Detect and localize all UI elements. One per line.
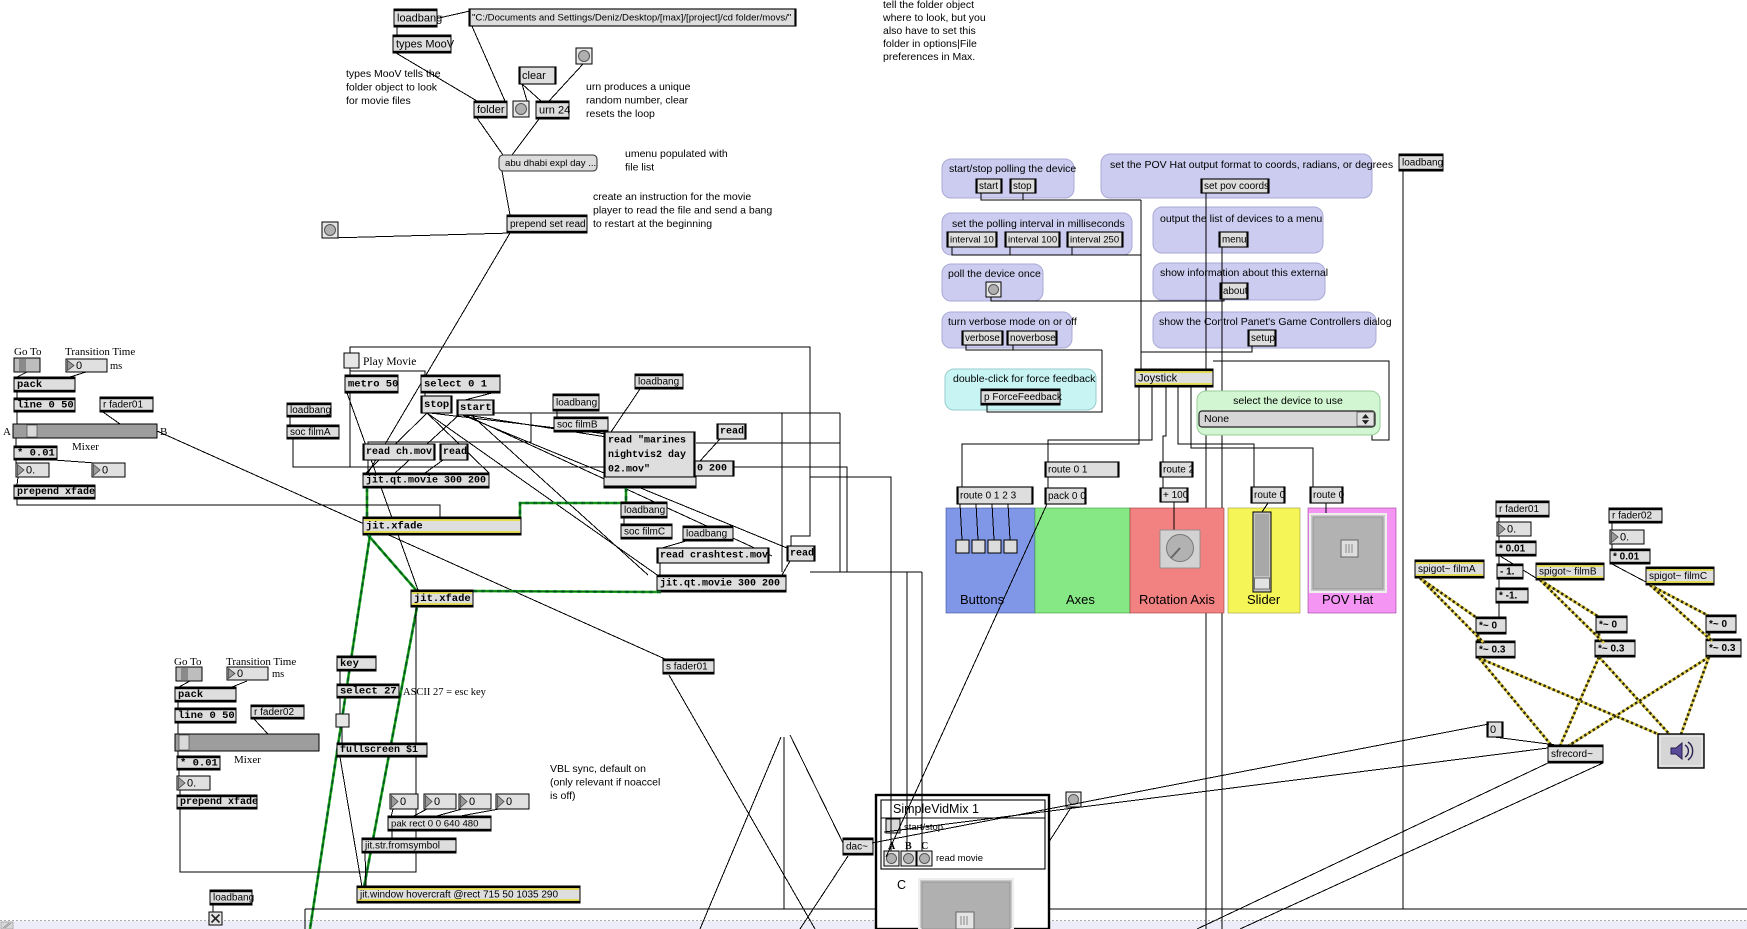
object loadbang (filmB) (553, 394, 599, 411)
wire stop-&gt;marines message (430, 413, 607, 434)
wire line-&gt;hslider 1 (16, 412, 18, 424)
wire loadbang-&gt;read crashtest (662, 541, 686, 548)
svg-text:poll the device once: poll the device once (948, 268, 1041, 280)
object types MooV (393, 35, 455, 53)
wire *0.01-&gt;*~0 c (1612, 564, 1710, 616)
wire stop-&gt;movieA (366, 413, 427, 473)
object soc filmA (287, 425, 339, 439)
svg-text:*~ 0.3: *~ 0.3 (1709, 643, 1736, 654)
svg-text:line 0 50: line 0 50 (178, 710, 235, 722)
wire route 0-&gt;pictslider (1325, 503, 1327, 514)
message interval 10 (947, 232, 997, 247)
toggle button 2 (972, 540, 985, 553)
number box fader02 (1610, 530, 1644, 544)
message route 2 (1160, 462, 1195, 477)
svg-text:soc filmA: soc filmA (290, 427, 331, 438)
svg-text:pack 0 0: pack 0 0 (1048, 491, 1086, 502)
svg-text:read "marines: read "marines (608, 435, 686, 447)
svg-text:Joystick: Joystick (1138, 373, 1178, 385)
svg-text:pack: pack (178, 689, 203, 701)
signal *~0.3b-&gt;sfrecord (1560, 657, 1599, 746)
svg-text:jit.xfade: jit.xfade (414, 593, 471, 605)
signal spigotA 2 (1420, 578, 1484, 643)
wire loadbang-&gt;soc filmB (556, 411, 558, 417)
svg-text:show information about this ex: show information about this external (1160, 267, 1328, 279)
wire bus drop 782 (781, 413, 783, 572)
svg-text:select 27: select 27 (340, 686, 397, 698)
svg-text:random number, clear: random number, clear (586, 95, 689, 107)
message verbose (962, 331, 1003, 345)
svg-text:jit.qt.movie 300 200: jit.qt.movie 300 200 (660, 578, 780, 590)
svg-text:Transition Time: Transition Time (226, 656, 296, 668)
wire fullscreen-&gt;jit.window (340, 757, 362, 887)
svg-text:ms: ms (110, 361, 122, 372)
wire clear-&gt;button2 area (522, 84, 527, 101)
comment select device (1233, 395, 1343, 407)
svg-text:ms: ms (272, 669, 284, 680)
comment create an instruction (593, 191, 772, 230)
object loadbang (filmC) (621, 502, 667, 518)
svg-text:Slider: Slider (1247, 592, 1281, 607)
svg-text:folder object to look: folder object to look (346, 82, 438, 94)
object loadbang (right) (1399, 154, 1443, 171)
object * 0.01 (2) (177, 756, 220, 770)
wire stop-&gt;movieA right (427, 413, 489, 473)
svg-text:ASCII 27 = esc key: ASCII 27 = esc key (403, 687, 487, 698)
toggle button 1 (956, 540, 969, 553)
wire loadbang-&gt;path message (430, 11, 470, 20)
svg-text:start/stop polling the device: start/stop polling the device (949, 163, 1076, 175)
jitter cable xfade2-&gt;jit.window (364, 607, 417, 887)
svg-text:read crashtest.mov: read crashtest.mov (660, 550, 768, 562)
wire read ch.mov-&gt;movieA (367, 460, 369, 473)
comment poll once (948, 268, 1041, 280)
svg-text:read movie: read movie (936, 853, 983, 864)
svg-text:also have to set this: also have to set this (883, 25, 976, 37)
wire route 0-&gt;slider (1262, 503, 1268, 512)
wire stop-&gt;movieC (427, 413, 660, 577)
wire key-&gt;select 27 (339, 671, 341, 684)
label Buttons (960, 592, 1005, 607)
svg-text:loadbang: loadbang (638, 377, 679, 388)
panel set POV hat format (1101, 154, 1372, 198)
wire joystick out2-&gt;route 0 1 (1048, 387, 1152, 462)
message 0 (1487, 722, 1503, 737)
svg-text:start: start (979, 181, 998, 192)
wire forcefeedback bus (987, 350, 1102, 412)
comment set POV hat (1110, 159, 1393, 171)
wire loadbang-&gt;soc filmC (623, 518, 625, 524)
svg-text:* -1.: * -1. (1499, 591, 1518, 602)
comment force feedback (953, 373, 1096, 385)
wire vidmix-&gt;0 message (872, 724, 1489, 843)
svg-text:Play Movie: Play Movie (363, 356, 416, 368)
wire metro down (349, 393, 351, 467)
svg-text:loadbang: loadbang (397, 13, 442, 25)
wire line-&gt;hslider 2 (177, 723, 179, 734)
object * 0.01 (b) (1610, 549, 1650, 564)
svg-text:r fader01: r fader01 (1499, 504, 1539, 515)
wire bus-&gt;read ch.mov inlet (368, 413, 531, 444)
object *~ 0.3 (c) (1706, 639, 1741, 657)
message fullscreen $1 (337, 743, 427, 757)
svg-text:A: A (3, 426, 11, 438)
comment output list devices (1160, 213, 1322, 225)
svg-text:*~ 0: *~ 0 (1599, 620, 1618, 631)
svg-text:route 0: route 0 (1313, 490, 1345, 501)
svg-text:p ForceFeedback: p ForceFeedback (984, 392, 1063, 403)
label Rotation Axis (1139, 592, 1215, 607)
wire start-&gt;movieA2 (395, 414, 460, 473)
svg-text:loadbang: loadbang (624, 505, 665, 516)
svg-text:route 0 1 2 3: route 0 1 2 3 (960, 491, 1017, 502)
object select 0 1 (421, 375, 500, 393)
number box mix 2 (177, 776, 210, 790)
object jit.qt.movie B (hidden bottom edge) (604, 477, 696, 488)
comment Transition Time 1 (65, 346, 135, 358)
svg-text:metro 50: metro 50 (348, 379, 398, 391)
object loadbang (filmA) (287, 403, 331, 417)
svg-text:prepend set read: prepend set read (510, 219, 586, 230)
jitter cable xfade1-&gt;xfade2 (368, 535, 416, 590)
object *~ 0.3 (a) (1476, 641, 1515, 658)
wire start bus (981, 193, 1141, 200)
object jit.qt.movie A (363, 473, 489, 488)
comment control panel dialog (1159, 316, 1392, 328)
wire num-&gt;pak 1 (391, 809, 393, 817)
wire jit.str-&gt;jit.window (365, 853, 366, 886)
svg-text:read: read (790, 548, 814, 560)
toggle button 3 (988, 540, 1001, 553)
message read (A) (440, 444, 468, 460)
message setup (1248, 330, 1276, 346)
svg-text:interval 250: interval 250 (1070, 235, 1119, 246)
button vidmix B (901, 851, 916, 866)
signal spigotC-&gt;*~0c (1650, 585, 1709, 616)
wire metro-&gt;jit.xfade 2 (347, 393, 418, 590)
wire button down to bus (783, 737, 785, 909)
svg-text:soc filmC: soc filmC (624, 527, 665, 538)
wire s fader01 down-right (669, 675, 815, 929)
svg-text:0.: 0. (1507, 524, 1516, 536)
message route 0 1 (1045, 462, 1119, 477)
wire read-&gt;movieC (782, 561, 790, 575)
object line 0 50 (2) (175, 708, 236, 723)
comment start/stop (904, 822, 943, 833)
button poll once (986, 282, 1001, 297)
wire clear-&gt;urn (522, 84, 541, 101)
wire number-&gt;*0.01 a (1498, 536, 1500, 541)
comment Transition Time 2 (226, 656, 296, 668)
wire poll button + about bus (991, 297, 1224, 301)
svg-text:- 1.: - 1. (1500, 567, 1515, 578)
svg-text:select 0 1: select 0 1 (424, 379, 487, 391)
label Axes (1066, 592, 1095, 607)
svg-text:urn 24: urn 24 (539, 105, 570, 117)
svg-text:read ch.mov: read ch.mov (366, 446, 432, 458)
jitter cable movieA-&gt;xfade1 (366, 488, 369, 518)
svg-text:Axes: Axes (1066, 592, 1095, 607)
label B (905, 841, 912, 852)
wire types MooV-&gt;folder (396, 53, 477, 101)
message set pov coords (1201, 179, 1269, 193)
wire bus branch-&gt;marines right inlet (696, 442, 840, 444)
wire read-&gt;0 200 (700, 439, 720, 461)
object key (337, 656, 376, 671)
object metro 50 (345, 375, 398, 393)
wire start-&gt;marines message (460, 414, 613, 438)
svg-text:setup: setup (1251, 333, 1276, 344)
message pack 0 0 (1045, 488, 1086, 504)
svg-text:read: read (720, 426, 744, 438)
wire folder-&gt;umenu (477, 118, 503, 155)
svg-text:loadbang: loadbang (556, 398, 597, 409)
comment verbose mode (948, 316, 1077, 328)
wire loadbang-&gt;read marines (611, 389, 640, 432)
svg-text:0: 0 (434, 796, 440, 808)
signal *~0.3c-&gt;sfrecord (1568, 657, 1709, 746)
toggle fullscreen (336, 714, 349, 727)
wire *0.01-&gt;number (15, 460, 17, 463)
wire slider-&gt;pack 1 (17, 372, 27, 377)
signal *~0a-&gt;*~0.3a (1477, 634, 1480, 641)
wire joystick out3-&gt;route 2 (1163, 387, 1166, 462)
svg-text:route 0 1: route 0 1 (1048, 465, 1088, 476)
svg-text:0: 0 (1490, 724, 1496, 736)
svg-text:types MooV tells the: types MooV tells the (346, 68, 441, 80)
svg-text:*~ 0.3: *~ 0.3 (1479, 645, 1506, 656)
wire setup-&gt;joystick (1141, 346, 1252, 352)
button (vidmix right) (1066, 792, 1081, 807)
wire horizontal 572 (810, 571, 922, 573)
message read marines nightvis2 (604, 432, 695, 477)
object select 27 (337, 684, 399, 698)
svg-text:Transition Time: Transition Time (65, 346, 135, 358)
wire loadbang long vertical (1402, 170, 1404, 909)
svg-text:key: key (340, 658, 360, 670)
wire num-&gt;pak 4 (455, 809, 499, 817)
object spigot~ filmA (1415, 560, 1484, 578)
number box mix 1a (16, 463, 49, 477)
window bottom strip (0, 921, 1747, 929)
svg-text:jit.qt.movie 300 200: jit.qt.movie 300 200 (366, 475, 486, 487)
jitter cable xfade1 down to bottom (310, 535, 370, 929)
svg-text:Mixer: Mixer (72, 441, 99, 453)
message folder path (469, 9, 796, 26)
wire long horizontal bottom (305, 908, 1747, 910)
pictslider POV hat (1310, 514, 1386, 592)
svg-text:(only relevant if noaccel: (only relevant if noaccel (550, 777, 660, 789)
wire num-&gt;pak 2 (412, 809, 427, 817)
svg-text:for movie files: for movie files (346, 95, 411, 107)
svg-text:fullscreen $1: fullscreen $1 (340, 744, 418, 756)
svg-text:* 0.01: * 0.01 (17, 448, 55, 460)
signal spigotB 2 (1540, 580, 1604, 643)
object jit.qt.movie C (657, 575, 786, 592)
svg-text:spigot~ filmC: spigot~ filmC (1649, 571, 1707, 582)
object line 0 50 (1) (14, 398, 75, 412)
svg-text:to restart at the beginning: to restart at the beginning (593, 218, 712, 230)
svg-text:turn verbose mode on or off: turn verbose mode on or off (948, 316, 1077, 328)
object soc filmC (621, 524, 672, 539)
svg-text:interval 100: interval 100 (1008, 235, 1057, 246)
wire *0.01-&gt;-1. (1498, 556, 1500, 564)
wire button-&gt;urn (549, 64, 583, 101)
comment Mixer 1 (72, 441, 99, 453)
SimpleVidMix subpatcher window frame (876, 795, 1049, 929)
hslider small (go to 2) (176, 667, 202, 681)
message 0 200 (694, 461, 734, 476)
svg-text:0: 0 (237, 668, 243, 680)
svg-text:nightvis2 day: nightvis2 day (608, 449, 686, 461)
svg-text:set the POV Hat output format: set the POV Hat output format to coords,… (1110, 159, 1393, 171)
wire +100-&gt;dial (1173, 502, 1175, 530)
object urn 24 (536, 101, 570, 119)
wire start bus right (494, 412, 840, 414)
wire route-&gt;toggle 3 (992, 504, 994, 540)
wire pack-&gt;line 1 (16, 392, 18, 398)
wire bus branch-&gt;A (810, 477, 891, 572)
object loadbang (crashtest) (683, 526, 733, 541)
svg-text:set pov coords: set pov coords (1204, 181, 1269, 192)
object soc filmB (554, 417, 608, 432)
wire r fader02-&gt;hslider (254, 719, 268, 734)
wire button down-left (700, 737, 781, 929)
wire sfrecord down-left (1197, 763, 1548, 929)
comment Mixer 2 (234, 754, 261, 766)
button vidmix A (884, 851, 899, 866)
signal *~0.3b-&gt;ezdac (1599, 657, 1672, 737)
toggle Play Movie (344, 353, 359, 368)
toggle button 4 (1004, 540, 1017, 553)
comment ms 1 (110, 361, 122, 372)
object dac~ (843, 838, 873, 855)
object - 1. (1497, 564, 1523, 579)
message clear (519, 67, 556, 84)
wire bus-&gt;Joystick inlet (1140, 200, 1142, 369)
signal *~0.3c-&gt;ezdac (1680, 657, 1709, 737)
panel polling interval (942, 213, 1132, 255)
wire bus drop 840 (839, 413, 841, 572)
svg-text:set the polling interval in mi: set the polling interval in milliseconds (952, 218, 1125, 230)
svg-text:pak rect 0 0 640 480: pak rect 0 0 640 480 (391, 819, 478, 830)
wire toggle-&gt;select (350, 371, 425, 375)
wire prepend xfade2-&gt;jit.xfade2 (180, 607, 416, 872)
object prepend xfade 1 (14, 485, 95, 499)
svg-text:read: read (443, 446, 467, 458)
wire menu long vertical (1221, 247, 1223, 929)
message stop (1010, 179, 1036, 193)
object spigot~ filmB (1536, 563, 1604, 580)
number box rect x (390, 794, 418, 809)
svg-text:loadbang: loadbang (290, 405, 331, 416)
svg-text:0: 0 (469, 796, 475, 808)
comment urn produces (586, 81, 691, 120)
object loadbang (marines) (635, 374, 683, 389)
object Joystick (hi) (1135, 369, 1213, 387)
svg-text:soc filmB: soc filmB (557, 420, 598, 431)
svg-text:folder in options|File: folder in options|File (883, 38, 977, 50)
svg-text:0.: 0. (26, 465, 35, 477)
object spigot~ filmC (1646, 567, 1714, 585)
wire select-&gt;toggle (339, 698, 341, 714)
ezdac~ speaker (1658, 734, 1704, 768)
wire soc filmA bus long (293, 438, 847, 572)
wire path-&gt;folder right inlet (471, 24, 505, 101)
wire urn-&gt;umenu (512, 119, 539, 155)
label SimpleVidMix 1 (893, 802, 979, 816)
wire route 0 1-&gt;pack (1047, 477, 1049, 488)
window bottom dotted divider (0, 920, 1747, 922)
comment show information (1160, 267, 1328, 279)
message read ch.mov (363, 444, 435, 460)
wire set pov coords long vertical (1205, 193, 1207, 929)
panel select device (green) (1197, 391, 1380, 435)
wire prepend set read-&gt;jit.qt.movie A (368, 233, 510, 473)
wire to vidmix A button (890, 572, 892, 851)
object jit.window hovercraft (357, 886, 580, 903)
wire select-&gt;stop (424, 393, 426, 396)
umenu device select None (1199, 411, 1375, 427)
wire *0.01-&gt;*~0 b (1500, 556, 1600, 617)
object jit.xfade 1 (363, 517, 521, 535)
svg-text:line 0 50: line 0 50 (17, 400, 74, 412)
svg-text:r fader02: r fader02 (1612, 511, 1652, 522)
wire to vidmix C button (921, 572, 923, 851)
svg-text:"C:/Documents and Settings/Den: "C:/Documents and Settings/Deniz/Desktop… (472, 13, 791, 24)
vslider (1253, 512, 1271, 592)
svg-text:0: 0 (76, 360, 82, 372)
svg-text:where to look, but you: where to look, but you (882, 12, 986, 24)
wire interval10 bus (952, 247, 1141, 255)
message start (457, 400, 494, 415)
message route 0 (slider) (1251, 487, 1286, 503)
panel Buttons (blue) (946, 508, 1035, 613)
object loadbang (bottom left) (210, 890, 254, 905)
wire joystick out1-&gt;route 0 1 2 3 (962, 387, 1139, 487)
number box rect w (459, 794, 491, 809)
message stop (421, 396, 452, 413)
svg-text:loadbang: loadbang (686, 529, 727, 540)
svg-text:double-click for force feedbac: double-click for force feedback (953, 373, 1096, 385)
svg-text:is off): is off) (550, 790, 575, 802)
wire loadbang-&gt;toggle (212, 905, 214, 912)
svg-text:jit.str.fromsymbol: jit.str.fromsymbol (364, 841, 440, 852)
wire route-&gt;toggle 1 (960, 504, 962, 540)
wire interval100-&gt;bus (1009, 247, 1011, 255)
svg-text:resets the loop: resets the loop (586, 108, 655, 120)
wire verbose bus (966, 345, 1102, 350)
comment A (3, 426, 11, 438)
comment B (160, 426, 167, 438)
wire umenu-&gt;prepend set read (502, 171, 510, 215)
pictslider vidmix (919, 879, 1013, 929)
wire r fader01-&gt;hslider (103, 412, 120, 424)
svg-text:route 2: route 2 (1163, 465, 1195, 476)
object * 0.01 (a) (1496, 541, 1536, 556)
object prepend set read (507, 215, 587, 233)
object *~ 0 (c) (1706, 615, 1736, 633)
wire hslider-&gt;*0.01 (2) (177, 751, 179, 756)
panel game controllers dialog (1153, 312, 1376, 348)
object *~ 0 (a) (1476, 617, 1506, 634)
object sfrecord~ (1548, 745, 1603, 763)
wire joystick out4-&gt;route 0 a (1178, 387, 1254, 487)
panel Rotation Axis (red) (1130, 508, 1224, 613)
panel output list of devices (1153, 207, 1323, 253)
comment ms 2 (272, 669, 284, 680)
panel verbose mode (942, 312, 1072, 348)
